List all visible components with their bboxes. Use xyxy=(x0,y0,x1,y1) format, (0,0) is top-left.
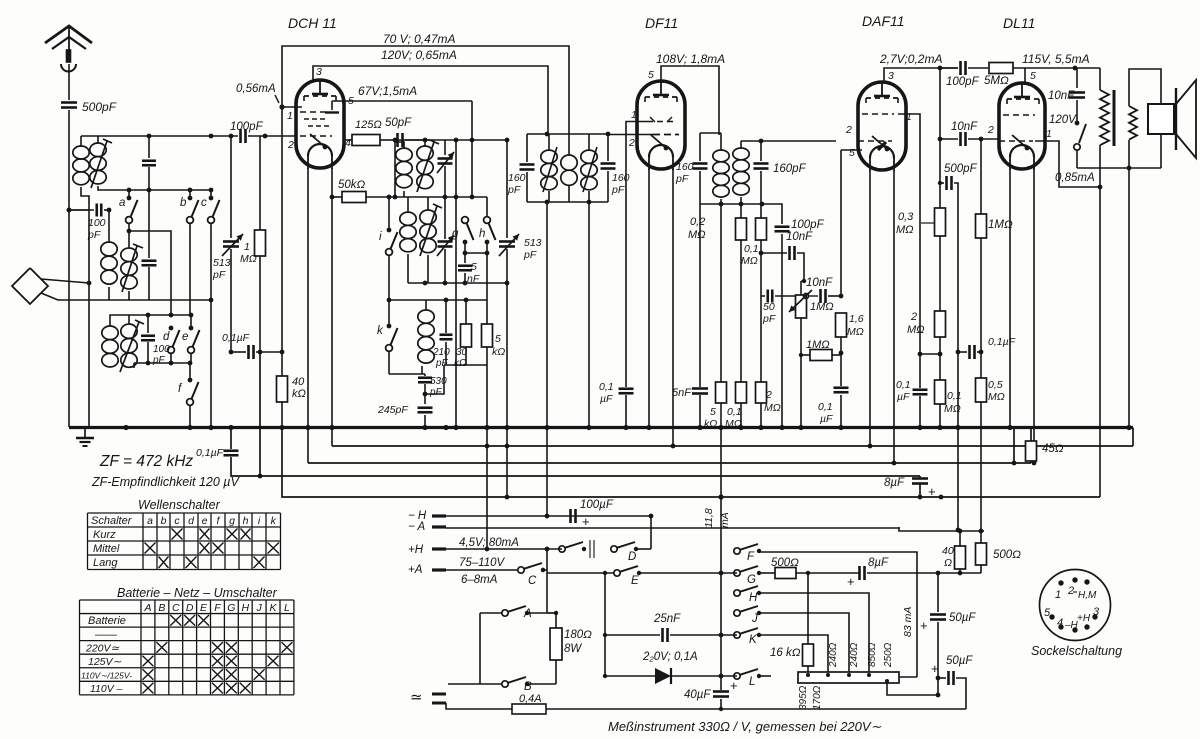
svg-text:2: 2 xyxy=(765,389,772,401)
svg-text:0,1µF: 0,1µF xyxy=(222,332,250,344)
wire IFT1 top to anode line xyxy=(546,134,548,135)
wire 109 down to pair2 xyxy=(108,210,110,242)
svg-text:110V –: 110V – xyxy=(90,683,123,695)
coil pair3 right winding with core arrow xyxy=(121,324,137,338)
svg-text:mA: mA xyxy=(719,512,731,528)
svg-text:G: G xyxy=(747,574,756,586)
wire L out xyxy=(759,675,771,677)
svg-text:513: 513 xyxy=(524,237,542,249)
svg-text:e: e xyxy=(202,515,208,527)
svg-text:C: C xyxy=(172,602,180,614)
wire rail y197 xyxy=(388,196,487,198)
svg-text:G: G xyxy=(227,602,235,614)
table Batterie grid xyxy=(80,599,294,601)
resistor 5k xyxy=(482,324,493,347)
svg-text:2: 2 xyxy=(987,124,994,136)
svg-text:170Ω: 170Ω xyxy=(812,685,823,710)
svg-text:10nF: 10nF xyxy=(806,277,833,289)
svg-text:5: 5 xyxy=(648,69,654,81)
svg-text:4: 4 xyxy=(345,137,351,149)
svg-text:f: f xyxy=(217,515,221,527)
wire 513 col top xyxy=(230,136,232,185)
svg-text:pF: pF xyxy=(507,184,521,196)
svg-text:115V, 5,5mA: 115V, 5,5mA xyxy=(1022,52,1090,66)
svg-text:3: 3 xyxy=(1093,606,1100,618)
svg-text:c: c xyxy=(201,197,207,209)
output transformer core bar xyxy=(1113,90,1116,146)
wire C to D E rows xyxy=(543,549,547,570)
switch F xyxy=(734,548,740,554)
svg-text:pF: pF xyxy=(212,269,226,281)
resistor 45 Ohm xyxy=(1030,428,1032,442)
IFT2 right cap 160pF xyxy=(760,141,762,161)
wire DAF pin2 left xyxy=(836,136,846,141)
svg-text:h: h xyxy=(479,228,485,240)
wire DL pin5 to rail xyxy=(1024,68,1026,83)
svg-text:µF: µF xyxy=(897,391,910,403)
capacitor 5nF xyxy=(464,253,466,263)
pointer 0,3M xyxy=(921,222,934,224)
svg-text:D: D xyxy=(628,551,636,563)
svg-text:5MΩ: 5MΩ xyxy=(984,75,1009,87)
svg-text:Ω: Ω xyxy=(944,557,952,569)
wire DL cathode legs xyxy=(1009,169,1011,427)
svg-text:+H: +H xyxy=(408,544,424,556)
coil pair1 left winding xyxy=(73,146,89,159)
svg-text:5: 5 xyxy=(495,333,501,345)
svg-text:Batterie – Netz – Umschalter: Batterie – Netz – Umschalter xyxy=(117,586,278,600)
wire +A line xyxy=(446,569,518,571)
svg-text:1MΩ: 1MΩ xyxy=(810,301,834,313)
wire J out xyxy=(759,613,849,672)
svg-text:D: D xyxy=(186,602,194,614)
svg-text:125Ω: 125Ω xyxy=(355,119,382,131)
switch E xyxy=(547,572,614,574)
svg-text:100µF: 100µF xyxy=(580,499,614,511)
svg-text:+: + xyxy=(920,618,928,633)
svg-text:50pF: 50pF xyxy=(385,117,412,129)
wire rail 70V xyxy=(282,46,569,155)
svg-text:pF: pF xyxy=(87,229,101,241)
svg-text:50µF: 50µF xyxy=(946,655,973,667)
svg-text:k: k xyxy=(377,325,384,337)
svg-text:0,3: 0,3 xyxy=(898,211,914,223)
IFT1 secondary coil with arrow xyxy=(581,150,597,163)
svg-text:pF: pF xyxy=(152,355,166,366)
main ground bus xyxy=(69,426,1133,429)
switch tone 120V xyxy=(1075,121,1080,126)
wire H out xyxy=(759,593,869,672)
svg-text:k: k xyxy=(271,515,277,527)
svg-text:kΩ: kΩ xyxy=(292,388,306,400)
variable cap mid x445 xyxy=(444,197,446,239)
svg-text:2: 2 xyxy=(910,311,917,323)
svg-text:0,1: 0,1 xyxy=(727,406,742,418)
wire 1M column to rail476 xyxy=(259,352,261,476)
svg-text:30: 30 xyxy=(456,347,468,358)
wire rail y283 xyxy=(408,282,507,284)
tube DF11 grids dashed xyxy=(647,121,676,123)
svg-text:pF: pF xyxy=(429,387,443,398)
IFT1 coupling loops xyxy=(561,155,577,170)
svg-text:2: 2 xyxy=(845,124,852,136)
antenna lead-in insulator xyxy=(67,50,71,62)
wire anode pin1 xyxy=(282,106,302,108)
wire antenna down xyxy=(68,64,70,100)
osc coil pair top right winding with arrow xyxy=(417,146,433,160)
switch D pole1 xyxy=(559,546,565,552)
svg-text:− A: − A xyxy=(408,521,425,533)
svg-text:4,5V; 80mA: 4,5V; 80mA xyxy=(459,537,519,549)
capacitor 0,1uF DF grid return xyxy=(619,387,634,390)
svg-text:i: i xyxy=(379,231,382,243)
svg-text:a: a xyxy=(119,197,125,209)
capacitor 0,1uF if bypass xyxy=(230,428,232,450)
svg-text:+A: +A xyxy=(408,564,423,576)
wire A B common xyxy=(480,612,502,614)
svg-text:108V; 1,8mA: 108V; 1,8mA xyxy=(656,52,725,66)
svg-text:K: K xyxy=(270,602,278,614)
wire pin3 to rail xyxy=(312,80,314,82)
svg-text:120V: 120V xyxy=(1049,114,1077,126)
svg-text:J: J xyxy=(256,602,263,614)
Sockelschaltung pins xyxy=(1058,580,1063,585)
capacitor 100pF pair3 xyxy=(147,315,149,333)
wire DF cathode legs xyxy=(648,169,650,427)
svg-text:10nF: 10nF xyxy=(786,231,813,243)
capacitor 8uF upper xyxy=(919,476,921,478)
wire rail 120V xyxy=(313,66,548,135)
table Wellenschalter grid xyxy=(88,512,281,514)
coil pair3 left winding xyxy=(102,326,118,340)
wire diamond bottom long y300 xyxy=(41,293,211,300)
svg-text:F: F xyxy=(214,602,221,614)
tube DCH11 anode dashed bracket xyxy=(304,95,336,97)
wire switch bank riser xyxy=(726,550,737,552)
svg-text:100: 100 xyxy=(88,217,106,229)
svg-text:120V; 0,65mA: 120V; 0,65mA xyxy=(381,48,457,62)
svg-text:pF: pF xyxy=(611,184,625,196)
resistor 16k xyxy=(803,644,814,666)
svg-text:160pF: 160pF xyxy=(773,163,807,175)
capacitor 0,1uF det out xyxy=(840,353,842,386)
svg-text:0,1: 0,1 xyxy=(947,390,962,402)
svg-text:Kurz: Kurz xyxy=(93,529,116,541)
svg-text:500Ω: 500Ω xyxy=(993,549,1021,561)
wire pair3 bottom rail xyxy=(134,362,191,364)
svg-text:160: 160 xyxy=(508,172,526,184)
wire IFT1 to DF grid2 xyxy=(608,134,653,136)
resistor 2M DF lower xyxy=(756,382,767,403)
svg-text:0,56mA: 0,56mA xyxy=(236,83,276,95)
svg-text:5: 5 xyxy=(849,147,855,159)
wire E out xyxy=(639,572,737,574)
svg-text:8W: 8W xyxy=(564,643,582,655)
svg-text:pF: pF xyxy=(435,358,449,369)
svg-text:i: i xyxy=(258,515,261,527)
wire a to d column xyxy=(129,231,171,315)
tube DF11 xyxy=(637,81,685,169)
svg-text:DAF11: DAF11 xyxy=(862,13,905,29)
variable capacitor 513pF osc xyxy=(499,240,515,243)
svg-text:0,5: 0,5 xyxy=(988,379,1003,391)
wire left riser to 25nF diode xyxy=(604,573,606,676)
wire avc column x282 xyxy=(281,107,283,352)
svg-text:≃: ≃ xyxy=(410,689,423,706)
table Wellenschalter X marks xyxy=(172,529,183,540)
svg-text:1: 1 xyxy=(244,241,250,253)
potentiometer 1M volume xyxy=(796,295,807,318)
svg-text:500pF: 500pF xyxy=(944,163,978,175)
IFT1 rails xyxy=(527,133,608,135)
svg-text:a: a xyxy=(147,515,153,527)
svg-text:160: 160 xyxy=(612,172,630,184)
wire antenna to bus xyxy=(68,110,70,427)
wire 0,85mA node xyxy=(1098,185,1103,190)
svg-text:B: B xyxy=(524,681,532,693)
svg-text:ZF-Empfindlichkeit 120 µV: ZF-Empfindlichkeit 120 µV xyxy=(91,475,241,489)
wire +H line xyxy=(446,548,562,550)
switch C xyxy=(518,567,524,573)
resistor 1MOhm agc xyxy=(259,136,261,230)
svg-text:1: 1 xyxy=(287,110,293,122)
switch link bars xyxy=(589,540,591,558)
svg-text:H: H xyxy=(749,592,758,604)
osc coil pair mid left winding xyxy=(400,212,416,225)
capacitor 210pF xyxy=(440,333,453,336)
wire h column down xyxy=(486,253,488,300)
svg-text:0,85mA: 0,85mA xyxy=(1055,172,1095,184)
node a bottom xyxy=(128,223,130,248)
svg-text:DF11: DF11 xyxy=(645,15,678,31)
tube DAF11 anode dashed xyxy=(866,97,898,99)
capacitor 50uF upper xyxy=(937,573,939,612)
svg-text:25nF: 25nF xyxy=(653,613,681,625)
svg-text:MΩ: MΩ xyxy=(907,324,925,336)
svg-text:2₂0V; 0,1A: 2₂0V; 0,1A xyxy=(642,651,698,663)
svg-text:b: b xyxy=(180,197,187,209)
svg-text:E: E xyxy=(631,575,639,587)
svg-text:F: F xyxy=(747,551,755,563)
switch G xyxy=(734,570,740,576)
svg-text:100pF: 100pF xyxy=(946,76,980,88)
svg-text:100pF: 100pF xyxy=(230,121,264,133)
svg-text:240Ω: 240Ω xyxy=(828,642,839,668)
tube DAF11 xyxy=(858,82,906,170)
svg-text:50kΩ: 50kΩ xyxy=(338,179,366,191)
svg-text:MΩ: MΩ xyxy=(688,229,706,241)
resistor 0,1M daf xyxy=(935,380,946,404)
switch K xyxy=(734,632,740,638)
svg-text:1: 1 xyxy=(631,109,637,121)
wire mains bottom xyxy=(446,703,512,709)
wire 89 down to bus xyxy=(88,283,90,427)
svg-text:MΩ: MΩ xyxy=(741,255,758,267)
svg-text:pF: pF xyxy=(762,313,776,325)
osc coil pair mid right winding with arrow xyxy=(420,210,436,224)
svg-text:8µF: 8µF xyxy=(868,557,889,569)
coil pair1 right winding with core arrow xyxy=(90,143,106,157)
svg-text:+: + xyxy=(847,574,855,589)
resistor bank long box xyxy=(798,672,899,683)
tube DL11 xyxy=(999,83,1045,169)
svg-text:220V≃: 220V≃ xyxy=(85,643,120,655)
vertical 11,8mA wire xyxy=(720,428,722,691)
capacitor 530pF xyxy=(418,376,432,379)
resistor 500 Ohm right xyxy=(980,531,982,543)
svg-text:L: L xyxy=(749,676,755,688)
svg-text:2,7V;0,2mA: 2,7V;0,2mA xyxy=(879,52,942,66)
resistor 40 Ohm xyxy=(959,531,961,546)
capacitor pair1 trimmer xyxy=(148,136,150,158)
svg-text:2: 2 xyxy=(1067,585,1074,597)
IFT1 primary coil with arrow xyxy=(541,150,557,163)
svg-text:5: 5 xyxy=(471,261,477,273)
wire osc low bracket xyxy=(425,300,427,310)
resistor 30k xyxy=(461,324,472,347)
resistor 5M xyxy=(989,63,1013,74)
wire osc long vertical 456 xyxy=(455,140,457,427)
svg-text:0,1µF: 0,1µF xyxy=(196,447,224,459)
svg-text:K: K xyxy=(749,634,758,646)
wire -A line xyxy=(446,527,899,529)
capacitor 10nF tone xyxy=(1076,68,1078,88)
svg-text:75–110V: 75–110V xyxy=(459,557,506,569)
wire D out xyxy=(636,548,651,550)
wire mains up to B xyxy=(447,684,449,694)
wire K out xyxy=(759,635,828,672)
svg-text:245pF: 245pF xyxy=(377,404,408,416)
resistor 40k xyxy=(281,352,283,376)
svg-text:B: B xyxy=(158,602,165,614)
svg-text:3: 3 xyxy=(316,66,322,78)
svg-text:ZF = 472 kHz: ZF = 472 kHz xyxy=(99,453,193,470)
svg-text:83 mA: 83 mA xyxy=(902,607,914,637)
wire mid column down xyxy=(939,68,941,183)
svg-text:H,M: H,M xyxy=(1078,590,1097,601)
svg-text:Wellenschalter: Wellenschalter xyxy=(138,498,221,512)
svg-text:A: A xyxy=(143,602,151,614)
wire rail 67V triode anode xyxy=(332,100,472,102)
output transformer secondary zigzag xyxy=(1129,106,1137,140)
svg-text:11,8: 11,8 xyxy=(703,508,715,528)
svg-text:MΩ: MΩ xyxy=(988,391,1005,403)
svg-text:240Ω: 240Ω xyxy=(849,642,860,668)
antenna xyxy=(45,26,92,43)
svg-text:125V∼: 125V∼ xyxy=(88,656,122,668)
osc coil low single xyxy=(418,310,434,323)
svg-text:+: + xyxy=(931,661,939,676)
wire DAF pin1 right to 0,3M xyxy=(898,114,920,354)
resistor 1,6M xyxy=(840,296,842,313)
svg-text:kΩ: kΩ xyxy=(454,358,467,369)
wire filament rail y463 xyxy=(308,462,1031,464)
svg-text:1: 1 xyxy=(1046,128,1052,140)
svg-text:MΩ: MΩ xyxy=(896,224,914,236)
wire F out xyxy=(759,552,917,677)
svg-text:500pF: 500pF xyxy=(82,100,117,114)
wire IFT1 sec top to DF grid xyxy=(606,132,611,137)
svg-text:210: 210 xyxy=(432,347,450,358)
wire rail y190 xyxy=(110,189,211,191)
svg-text:Mittel: Mittel xyxy=(93,543,120,555)
wire DAF grid entry xyxy=(836,140,858,142)
svg-text:MΩ: MΩ xyxy=(847,326,864,338)
wire pair3 top rail xyxy=(110,315,191,326)
wire DAF cathode legs xyxy=(869,170,871,446)
svg-text:0,1: 0,1 xyxy=(896,379,911,391)
diode xyxy=(605,675,655,677)
resistor 0,3M xyxy=(935,208,946,236)
svg-text:45Ω: 45Ω xyxy=(1042,443,1064,455)
tube DF11 anode dashed xyxy=(645,96,677,98)
wire rail y365 xyxy=(444,364,487,366)
resistor 180 Ohm 8W xyxy=(550,628,562,660)
wire volume to DAF grid pin5 xyxy=(840,150,842,296)
svg-text:0,1: 0,1 xyxy=(599,381,614,393)
wire top node to grid line xyxy=(81,135,238,137)
svg-text:J: J xyxy=(751,613,758,625)
wire DAF pin3 rail to 100pF 5M xyxy=(884,68,958,83)
wire rail y300 xyxy=(388,299,487,301)
wire pair2 bottoms xyxy=(108,287,110,300)
svg-text:70 V; 0,47mA: 70 V; 0,47mA xyxy=(383,32,456,46)
svg-text:µF: µF xyxy=(600,393,613,405)
svg-text:——: —— xyxy=(94,629,118,641)
svg-text:2: 2 xyxy=(628,137,635,149)
wire speaker return down xyxy=(1128,168,1130,427)
svg-text:MΩ: MΩ xyxy=(944,403,961,415)
table Batterie X marks xyxy=(170,615,181,626)
switch J xyxy=(734,610,740,616)
resistor 0,5M xyxy=(976,378,987,402)
capacitor 100pF antenna xyxy=(95,204,98,217)
svg-text:5nF: 5nF xyxy=(672,387,692,399)
IFT2 rails xyxy=(700,132,721,134)
svg-text:530: 530 xyxy=(430,376,447,387)
svg-text:DL11: DL11 xyxy=(1003,15,1035,31)
svg-text:E: E xyxy=(200,602,208,614)
resistor 0,1M vert pair xyxy=(736,218,747,240)
diode plate mark DAF11 xyxy=(878,142,886,150)
ground symbol xyxy=(84,429,86,438)
wire IFT2 sec top rail to DAF grid xyxy=(741,140,836,142)
svg-text:µF: µF xyxy=(820,413,833,425)
capacitor 100uF xyxy=(569,509,572,523)
svg-text:f: f xyxy=(178,383,183,395)
svg-text:g: g xyxy=(229,515,235,527)
wire 487 column to +H xyxy=(486,428,488,550)
svg-text:16 kΩ: 16 kΩ xyxy=(770,647,801,659)
svg-text:Schalter: Schalter xyxy=(91,515,133,527)
wire 548 column to -H xyxy=(546,428,548,517)
svg-text:67V;1,5mA: 67V;1,5mA xyxy=(358,84,417,98)
wire osc mid coil leads xyxy=(407,197,409,212)
wire speaker bottom rail xyxy=(1077,167,1161,169)
IFT2 primary coil xyxy=(713,150,729,162)
svg-text:d: d xyxy=(188,515,195,527)
svg-text:850Ω: 850Ω xyxy=(867,642,878,667)
switch D pole2 xyxy=(611,546,617,552)
svg-text:5: 5 xyxy=(710,406,716,418)
IFT1 left cap 160pF xyxy=(526,134,528,162)
wire B common left to mains xyxy=(448,683,480,685)
svg-text:513: 513 xyxy=(213,257,231,269)
wire pot top node xyxy=(802,279,806,283)
svg-text:40: 40 xyxy=(942,545,954,557)
svg-text:40: 40 xyxy=(292,376,305,388)
tube DCH11 xyxy=(296,80,344,168)
